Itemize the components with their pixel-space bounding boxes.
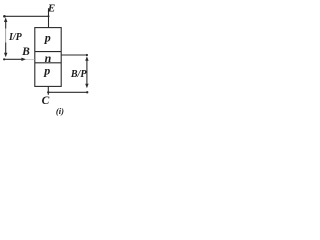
svg-text:I/P: I/P bbox=[8, 32, 23, 43]
svg-text:E: E bbox=[47, 2, 55, 14]
svg-text:p: p bbox=[44, 31, 51, 45]
svg-text:C: C bbox=[42, 95, 50, 107]
svg-text:(i): (i) bbox=[56, 106, 64, 116]
svg-text:B: B bbox=[21, 46, 30, 58]
svg-text:p: p bbox=[43, 64, 50, 78]
svg-text:B/P: B/P bbox=[70, 69, 87, 80]
